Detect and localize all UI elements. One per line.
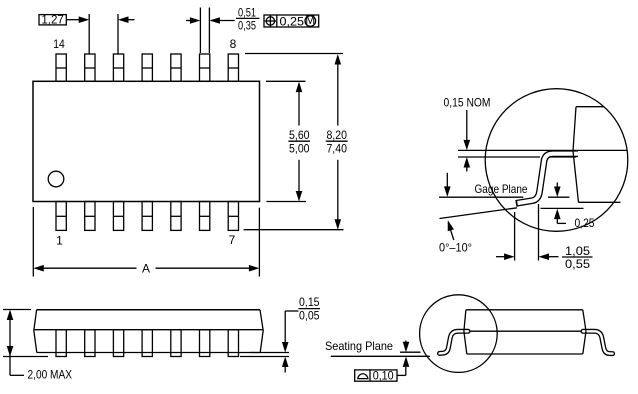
side view pin 6: [200, 330, 210, 357]
svg-text:14: 14: [53, 37, 65, 51]
svg-text:8,20: 8,20: [326, 128, 347, 142]
dim 1,27 pitch: [39, 12, 135, 54]
pin 8: [228, 54, 238, 81]
pin 2: [85, 202, 95, 231]
pin 9: [200, 54, 210, 81]
pin 1: [56, 202, 66, 231]
svg-text:Gage Plane: Gage Plane: [475, 182, 528, 196]
detail circle gage plane: [485, 89, 628, 232]
svg-text:2,00 MAX: 2,00 MAX: [28, 367, 73, 381]
dim 0,15/0,05 standoff: [240, 295, 320, 373]
side view pin 1: [56, 330, 66, 357]
pin 10: [171, 54, 181, 81]
pin 12: [113, 54, 123, 81]
side view pin 4: [142, 330, 152, 357]
svg-text:0,25: 0,25: [575, 216, 595, 230]
dim 0,51/0,35 lead width: [186, 5, 260, 53]
dim 1,05/0,55 foot length: [496, 204, 593, 271]
svg-text:0,35: 0,35: [238, 19, 256, 33]
side view pin 3: [113, 330, 123, 357]
svg-text:0,05: 0,05: [299, 309, 320, 323]
lead thickness reference lines: [458, 149, 628, 151]
svg-text:7: 7: [229, 233, 236, 247]
lead in detail: [516, 154, 578, 204]
svg-text:0°–10°: 0°–10°: [439, 241, 472, 255]
svg-text:0,15: 0,15: [299, 295, 320, 309]
pin 5: [171, 202, 181, 231]
seating view parting line: [460, 330, 585, 332]
pin 3: [113, 202, 123, 231]
svg-text:0,55: 0,55: [565, 257, 590, 271]
side view pin 2: [85, 330, 95, 357]
pin 13: [85, 54, 95, 81]
seating view body: [464, 310, 586, 354]
seating plane label and lines: [325, 339, 430, 376]
pin 7: [228, 202, 238, 231]
svg-text:A: A: [142, 262, 150, 276]
svg-text:Seating Plane: Seating Plane: [325, 339, 393, 353]
svg-text:0,51: 0,51: [238, 5, 256, 19]
side view pin 5: [171, 330, 181, 357]
svg-text:0,10: 0,10: [373, 368, 394, 382]
svg-text:0,25: 0,25: [280, 14, 305, 28]
svg-text:M: M: [305, 13, 315, 27]
svg-text:0,15 NOM: 0,15 NOM: [444, 95, 491, 109]
side view pin 7: [228, 330, 238, 357]
dim 5,60/5,00 body width: [266, 81, 310, 201]
gage plane label and line: [439, 173, 528, 197]
datum feature frame 0,10: [355, 368, 397, 382]
seating view right lead: [583, 331, 613, 353]
svg-text:1: 1: [56, 234, 63, 248]
dim 0,15 NOM lead thickness: [444, 95, 491, 171]
svg-text:1,05: 1,05: [565, 244, 590, 258]
svg-text:5,00: 5,00: [289, 141, 310, 155]
pin 6: [200, 202, 210, 231]
dim A overall length: [33, 207, 259, 277]
dim 8,20/7,40 overall width: [244, 54, 348, 230]
pin 14: [56, 54, 66, 81]
dim 2,00 MAX height: [3, 310, 72, 382]
top view package body: [33, 81, 260, 201]
body edge in detail: [573, 107, 621, 203]
lead angle 0-10 deg: [439, 208, 517, 255]
svg-text:5,60: 5,60: [289, 128, 310, 142]
pin 4: [142, 202, 152, 231]
svg-text:7,40: 7,40: [326, 141, 347, 155]
side view body: [34, 310, 263, 353]
feature control frame 0,25 M: [264, 13, 319, 28]
seating view left lead: [440, 331, 469, 353]
pin 1 index circle: [48, 171, 64, 187]
dim 0,25 gage to foot: [541, 182, 595, 230]
pin 11: [142, 54, 152, 81]
svg-text:8: 8: [230, 37, 237, 51]
detail circle seating plane: [420, 295, 498, 373]
svg-text:1,27: 1,27: [41, 12, 64, 26]
